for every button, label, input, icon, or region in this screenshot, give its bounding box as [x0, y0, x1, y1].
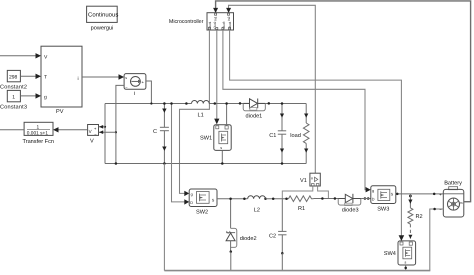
wire: ground tie from rail to bottom return rail [163, 164, 165, 271]
resistor load branch [303, 104, 309, 164]
constant block Constant3 (1) [7, 90, 20, 101]
junction: diode2 at wire [229, 197, 232, 200]
port dot: diode3 cathode [364, 197, 367, 200]
junction: SW4 at bottom rail [404, 267, 407, 270]
svg-text:V1: V1 [300, 178, 307, 184]
wire: SW4 source to bottom rail [405, 265, 407, 271]
wire: MC Out3 to SW3 gate [223, 30, 367, 190]
junction: L1 right [214, 102, 217, 105]
capacitor C1 branch [278, 104, 286, 164]
junction: current source plus at bus [150, 102, 152, 104]
arrowhead into SW2 D [184, 199, 189, 204]
svg-text:diode3: diode3 [342, 207, 359, 214]
wire: V1 plus lead to node left of R1 [282, 186, 313, 199]
arrowhead into PV g input [36, 93, 42, 98]
wire: V minus tap [99, 131, 116, 133]
svg-text:Out2: Out2 [213, 21, 217, 28]
wire: V1 minus lead to node right of R1 [318, 186, 329, 198]
svg-text:V: V [89, 129, 92, 134]
svg-text:i: i [78, 76, 79, 82]
svg-text:−: − [439, 207, 442, 212]
svg-text:diode2: diode2 [240, 235, 257, 242]
wire: battery m to microcontroller In1 (top and right edge) [216, 1, 471, 202]
svg-text:g: g [191, 193, 193, 197]
arrowhead at V plus port [99, 125, 103, 129]
wire: SW1 drain to bus [226, 104, 228, 126]
junction: L1 left [185, 102, 188, 105]
svg-text:C2: C2 [269, 233, 276, 239]
inductor L1 [192, 101, 210, 104]
svg-text:R1: R1 [298, 206, 305, 212]
flow arrow on C branch top [162, 109, 166, 113]
svg-text:T: T [44, 75, 47, 81]
controlled current source I1 [124, 74, 146, 90]
junction: C1 at bus [281, 102, 284, 105]
arrowhead into SW1 gate [214, 119, 219, 125]
svg-text:g: g [44, 94, 47, 100]
svg-text:S: S [212, 198, 215, 202]
wire: MC Out1 to SW2 gate [180, 30, 210, 193]
arrowhead at V minus port [99, 130, 103, 134]
wire: Constant3 to PV g [20, 95, 36, 97]
junction dot: SW3 drain wire [367, 197, 370, 200]
wire: battery minus to bottom rail [430, 209, 444, 271]
wire: diode2 to bottom rail [230, 252, 232, 271]
wire: V1 to microcontroller In2 [229, 5, 316, 173]
svg-text:+: + [439, 192, 442, 197]
wire: current source plus to DC bus top [146, 81, 152, 104]
voltage measurement V [88, 125, 99, 137]
port dot: C2 bottom [281, 252, 284, 255]
svg-text:Out1: Out1 [208, 21, 212, 28]
svg-text:Out4: Out4 [228, 21, 232, 28]
svg-text:SW4: SW4 [384, 251, 396, 257]
flow arrow into SW4 m [408, 235, 412, 239]
arrowhead into PV V input [36, 53, 42, 58]
junction: source minus on rail [115, 162, 118, 165]
svg-text:v: v [311, 175, 313, 180]
wire: PV i output to controlled current source s [82, 76, 120, 78]
capacitor C2 branch [278, 199, 286, 254]
svg-text:+: + [94, 126, 97, 131]
svg-text:SW2: SW2 [196, 210, 208, 216]
junction dot left of V1 minus tap [321, 197, 324, 200]
resistor R1 [289, 196, 314, 202]
wire: SW2 source to L2 [217, 198, 248, 200]
junction dot right of C2 tap [285, 197, 288, 200]
microcontroller U1 block [207, 13, 234, 30]
junction: SW1 source at rail [221, 162, 224, 165]
svg-text:i: i [134, 90, 135, 97]
port dot: diode3 anode [334, 197, 337, 200]
junction: L2 left port [243, 197, 246, 200]
junction: SW2 drain tap on bus [170, 102, 173, 105]
svg-text:m: m [460, 201, 463, 205]
svg-text:V: V [90, 139, 94, 145]
diode D3 (diode3) [338, 194, 361, 206]
wire: V feedback into PV (from left edge) [0, 55, 37, 57]
inductor L2 [248, 196, 266, 199]
svg-text:C: C [153, 129, 157, 135]
svg-text:SW1: SW1 [200, 136, 212, 142]
svg-text:diode1: diode1 [246, 112, 263, 119]
junction: SW1 drain at bus [225, 102, 228, 105]
svg-text:298: 298 [9, 75, 18, 81]
svg-text:PV: PV [56, 109, 64, 115]
flow arrow on C1 branch top [280, 114, 284, 118]
svg-text:Continuous: Continuous [88, 12, 118, 19]
junction: SW3 S port dot [396, 193, 399, 196]
voltage measurement V1 [310, 173, 320, 186]
junction: V minus tap on vertical [115, 131, 117, 133]
constant block Constant2 (298) [7, 70, 20, 81]
wire: bus to SW2 drain [172, 104, 185, 202]
svg-text:+: + [142, 79, 145, 84]
flow arrow on load branch [304, 114, 308, 118]
battery B1 [439, 187, 464, 217]
svg-text:V: V [44, 54, 48, 60]
svg-text:SW3: SW3 [377, 207, 389, 213]
wire: SW1 source to rail [221, 150, 223, 163]
svg-text:s: s [125, 76, 127, 80]
svg-text:0.001 s+1: 0.001 s+1 [27, 131, 49, 137]
port dot: diode1 cathode [268, 102, 271, 105]
flow arrow on C1 branch bottom [280, 149, 284, 153]
powergui block (Continuous) [87, 6, 119, 22]
junction: V plus tap on vertical [104, 126, 106, 128]
wire: SW3 source to battery plus [396, 193, 444, 195]
mosfet SW2 [189, 189, 217, 207]
node: bottom return rail [164, 270, 430, 272]
flow arrow on load branch bottom [304, 149, 308, 153]
svg-text:Transfer Fcn: Transfer Fcn [23, 138, 55, 145]
junction: C at bus [163, 102, 166, 105]
svg-text:load: load [290, 132, 301, 139]
svg-text:L1: L1 [198, 112, 204, 118]
junction: battery plus wire dot [433, 193, 436, 196]
arrowhead into SW2 gate [184, 191, 189, 196]
junction: C1 at rail [281, 162, 284, 165]
capacitor C branch [160, 104, 169, 164]
arrowhead into In1 [213, 8, 218, 13]
wire: V plus tap [99, 126, 106, 128]
arrowhead into PV T input [36, 74, 42, 79]
svg-text:s: s [405, 261, 407, 265]
diode D1 (diode1) [243, 99, 265, 111]
wire: current source minus down to PV negative rail [116, 85, 124, 163]
arrowhead into SW3 gate [366, 187, 371, 192]
svg-text:S: S [391, 193, 394, 197]
mosfet SW3 [371, 186, 396, 204]
mosfet SW1 [214, 125, 231, 151]
svg-text:In1: In1 [213, 16, 217, 21]
svg-text:g: g [372, 189, 374, 193]
svg-text:s: s [220, 146, 222, 150]
port dot: diode1 anode [239, 102, 242, 105]
node: PV negative rail [105, 163, 306, 165]
junction: R2 tap [409, 195, 412, 198]
svg-text:D: D [190, 201, 193, 205]
diode D2 (diode2) branch [226, 199, 237, 251]
svg-text:R2: R2 [416, 214, 423, 220]
svg-text:powergui: powergui [91, 25, 114, 32]
arrowhead into In2 [226, 8, 231, 13]
mosfet SW4 [398, 241, 416, 265]
junction: C at rail [163, 162, 166, 165]
svg-text:Constant2: Constant2 [0, 85, 27, 91]
svg-text:Out3: Out3 [222, 21, 226, 28]
junction dot left of C2 tap [272, 197, 275, 200]
svg-text:1: 1 [12, 95, 15, 101]
wire: MC Out2 to SW1 gate [216, 30, 218, 120]
resistor R2 branch [408, 194, 413, 241]
svg-text:Battery: Battery [444, 181, 462, 187]
wire: L2 to R1 [266, 198, 289, 200]
arrowhead into SW4 gate [399, 235, 405, 241]
arrowhead into source s input [119, 74, 125, 79]
wire: MC Out4 to SW4 gate [230, 30, 402, 237]
svg-text:Microcontroller: Microcontroller [169, 19, 204, 25]
wire: V output to Transfer Fcn [58, 129, 88, 131]
wire: C2 to bottom rail [281, 253, 283, 270]
port dot: diode2 bottom [230, 250, 233, 253]
wire: diode3 to SW3 D [361, 198, 371, 200]
wire: battery m output stub [464, 201, 471, 203]
arrowhead into Transfer Fcn [53, 127, 59, 132]
wire: Constant2 to PV T [20, 75, 36, 77]
svg-text:D: D [372, 197, 375, 201]
svg-text:L2: L2 [254, 208, 260, 214]
flow arrow on R2 branch [408, 200, 412, 204]
svg-text:In2: In2 [227, 16, 231, 21]
junction: battery minus wire dot [433, 208, 436, 211]
flow arrow on C branch bottom [162, 147, 166, 151]
transfer function block Transfer Fcn [24, 122, 53, 136]
node: DC bus top rail [105, 104, 306, 164]
wire: R1 to diode3 [314, 198, 339, 200]
svg-text:Constant3: Constant3 [0, 104, 27, 110]
PV block [41, 46, 82, 107]
svg-text:C1: C1 [269, 133, 276, 139]
junction: L2 right port [264, 197, 267, 200]
wire: Transfer Fcn output to left edge [0, 129, 24, 131]
